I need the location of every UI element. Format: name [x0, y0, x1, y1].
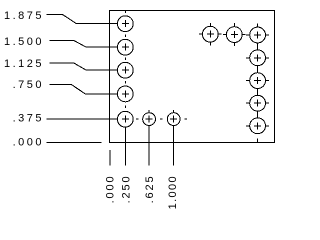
centerline dash A4-B1 [124, 105, 126, 108]
ordinate leader 1.125 [50, 63, 118, 70]
svg-text:1.000: 1.000 [167, 174, 179, 209]
hole B1 [117, 111, 133, 127]
hole D5 [250, 118, 266, 134]
svg-text:.625: .625 [144, 174, 156, 203]
center cross D3 [254, 77, 261, 84]
hole A3 [117, 62, 133, 78]
center cross D1 [254, 32, 261, 39]
center cross A1 [122, 20, 129, 27]
center mark ticks D1 [246, 24, 269, 47]
center cross B3 [170, 116, 177, 123]
center cross C1 [207, 31, 214, 38]
ordinate leader 1.500 [50, 40, 118, 47]
center cross A3 [122, 67, 129, 74]
extension line .250 [124, 127, 126, 165]
svg-text:.750: .750 [13, 79, 44, 91]
center cross A2 [122, 44, 129, 51]
center cross D4 [254, 100, 261, 107]
center cross D2 [254, 54, 261, 61]
center cross B1 [122, 116, 129, 123]
center mark ticks C2 [223, 23, 246, 46]
svg-text:1.875: 1.875 [4, 10, 44, 22]
center mark ticks C1 [199, 23, 222, 46]
centerline dash right of B3 [185, 118, 188, 120]
hole A4 [117, 86, 133, 102]
hole D1 [250, 27, 266, 43]
centerline dash B2-B3 [160, 118, 163, 120]
centerline dash B1-B2 [136, 118, 139, 120]
svg-text:.250: .250 [121, 174, 133, 203]
svg-text:1.500: 1.500 [4, 36, 44, 48]
center cross B2 [146, 116, 153, 123]
hole B3 [167, 113, 180, 126]
centerline dash A1-A2 [124, 34, 126, 37]
svg-text:1.125: 1.125 [4, 58, 44, 70]
ordinate leader .000 (y datum) [47, 142, 102, 144]
centerline dash A2-A3 [124, 58, 126, 61]
ordinate leader .750 [50, 84, 118, 94]
center mark ticks D3 [246, 69, 269, 92]
svg-text:.375: .375 [13, 112, 44, 124]
center mark ticks D4 [246, 92, 269, 115]
centerline tick above B3 [173, 110, 175, 113]
svg-text:.000: .000 [105, 174, 117, 203]
center cross C2 [231, 31, 238, 38]
extension line .000 (x datum) [109, 150, 111, 165]
hole C1 [202, 26, 218, 42]
hole C2 [226, 27, 242, 43]
centerline tick above B2 [148, 110, 150, 113]
center cross D5 [254, 122, 261, 129]
hole A1 [117, 16, 133, 32]
hole D4 [250, 95, 266, 111]
hole B2 [143, 113, 156, 126]
hole D2 [250, 50, 266, 66]
svg-text:.000: .000 [13, 136, 44, 148]
extension line .625 [148, 126, 150, 166]
ordinate leader .375 [47, 118, 118, 120]
ordinate leader 1.875 [47, 15, 118, 24]
hole D3 [250, 73, 266, 89]
center cross A4 [122, 90, 129, 97]
center mark ticks D5 [246, 114, 269, 142]
hole A2 [117, 39, 133, 55]
part outline rectangle [110, 11, 275, 143]
centerline dash above A1 [124, 10, 126, 13]
extension line 1.000 [173, 126, 175, 166]
center mark ticks D2 [246, 46, 269, 69]
centerline dash A3-A4 [124, 81, 126, 84]
